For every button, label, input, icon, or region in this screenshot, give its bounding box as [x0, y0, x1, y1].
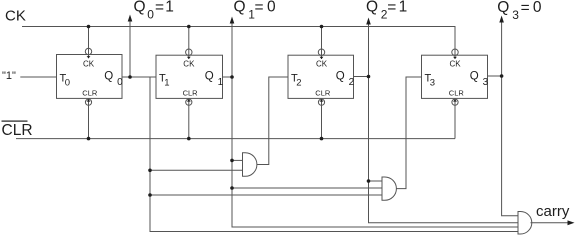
- svg-text:Q2: Q2: [336, 70, 355, 87]
- wire Q0 drop: [150, 77, 518, 232]
- junction Q0-G2: [148, 193, 152, 197]
- flip-flop U3 CK bubble: [318, 49, 324, 55]
- flip-flop U4 box: [422, 55, 488, 98]
- svg-text:"1": "1": [2, 70, 16, 82]
- flip-flop U2 box: [156, 55, 223, 98]
- arrowhead Q1: [230, 17, 235, 24]
- svg-text:CLR: CLR: [449, 88, 465, 97]
- junction Q3 output: [500, 74, 504, 78]
- svg-text:Q0: Q0: [104, 70, 123, 87]
- pin arrowhead CK x=321.5: [320, 57, 324, 59]
- svg-text:CK: CK: [183, 59, 195, 68]
- svg-text:Q3: Q3: [470, 70, 489, 87]
- wire Q0 arrow riser: [129, 20, 131, 77]
- wire Q3 arrow riser: [501, 21, 503, 76]
- wire Q3 stub: [488, 75, 502, 77]
- junction CLR-FF2: [187, 137, 191, 141]
- wire AND2 input from Q2: [369, 180, 383, 182]
- junction CLR-FF3: [320, 137, 324, 141]
- svg-text:T0: T0: [60, 72, 70, 88]
- wire CK drop FF1: [88, 27, 90, 59]
- svg-text:T1: T1: [159, 72, 169, 88]
- arrowhead carry: [568, 220, 575, 225]
- junction Q2 output: [367, 75, 371, 79]
- svg-text:Q1: Q1: [205, 70, 224, 87]
- AND gate G1: [243, 153, 257, 177]
- wire AND2 output to T3: [396, 77, 422, 189]
- flip-flop U4 CK bubble: [452, 49, 458, 55]
- wire Q1 arrow riser: [231, 22, 233, 77]
- svg-text:Q1=0: Q1=0: [234, 0, 277, 22]
- flip-flop U2 CK bubble: [186, 49, 192, 55]
- wire Q1 stub: [223, 76, 233, 78]
- svg-text:carry: carry: [536, 203, 570, 220]
- AND gate G3 carry: [518, 212, 532, 235]
- wire AND1 input from Q0: [150, 169, 243, 171]
- flip-flop U1 box: [57, 55, 123, 99]
- wire CLR bus: [16, 138, 455, 140]
- junction CK-FF2: [187, 25, 191, 29]
- svg-text:T3: T3: [425, 72, 435, 88]
- wire AND1 output to T2: [257, 77, 289, 165]
- flip-flop U1 CLR bubble: [85, 99, 91, 105]
- svg-text:CLR: CLR: [183, 88, 199, 97]
- svg-text:Q2=1: Q2=1: [366, 0, 407, 22]
- pin arrowhead CLR x=455: [453, 99, 457, 101]
- wire Q1 drop: [232, 77, 518, 227]
- flip-flop U3 box: [288, 55, 354, 98]
- pin arrowhead CLR x=321.5: [320, 99, 324, 101]
- pin arrowhead CK x=188.8: [187, 57, 191, 59]
- junction Q1-G1: [230, 159, 234, 163]
- wire Q0 to T1: [122, 76, 156, 78]
- svg-text:Q3=0: Q3=0: [497, 0, 542, 22]
- flip-flop U4 CLR bubble: [452, 99, 458, 105]
- wire Q2 stub: [354, 76, 369, 78]
- svg-text:T2: T2: [291, 72, 301, 88]
- flip-flop U3 CLR bubble: [318, 99, 324, 105]
- wire 1-input to T0: [20, 76, 56, 78]
- arrowhead Q0: [128, 15, 133, 22]
- overline of CLR: [2, 121, 28, 122]
- junction Q1 output: [230, 75, 234, 79]
- junction Q1-G2: [230, 186, 234, 190]
- wire CK bus: [22, 27, 455, 59]
- pin arrowhead CK x=88.5: [87, 56, 91, 58]
- wire CK drop FF2: [188, 27, 190, 59]
- flip-flop U2 CLR bubble: [186, 99, 192, 105]
- wire CLR drop FF4: [454, 99, 456, 139]
- pin arrowhead CK x=455: [453, 57, 457, 59]
- junction Q0 arrow: [128, 75, 132, 79]
- junction CLR-FF1: [87, 137, 91, 141]
- wire AND1 input from Q1: [232, 159, 243, 161]
- wire Q3 drop to carry gate: [502, 76, 518, 216]
- junction CK-FF3: [320, 25, 324, 29]
- wire Q2 arrow riser: [368, 23, 370, 77]
- junction Q0-G1: [148, 169, 152, 173]
- flip-flop U1 CK bubble: [85, 48, 91, 54]
- svg-text:CK: CK: [450, 59, 462, 68]
- wire CLR drop FF1: [88, 99, 90, 139]
- wire CK drop FF3: [321, 27, 323, 59]
- wire AND2 input from Q0: [150, 194, 382, 196]
- junction CK-FF1: [87, 25, 91, 29]
- svg-text:CLR: CLR: [82, 88, 98, 97]
- junction Q2-G2: [367, 179, 371, 183]
- wire CLR drop FF2: [188, 99, 190, 139]
- wire AND2 input from Q1: [232, 187, 382, 189]
- svg-text:CLR: CLR: [2, 122, 33, 139]
- wire Q2 drop: [369, 77, 519, 223]
- pin arrowhead CLR x=88.5: [87, 99, 91, 101]
- svg-text:CK: CK: [316, 59, 328, 68]
- wire CLR drop FF3: [321, 99, 323, 139]
- svg-text:CK: CK: [5, 8, 26, 25]
- svg-text:CLR: CLR: [315, 88, 331, 97]
- svg-text:CK: CK: [83, 59, 95, 68]
- pin arrowhead CLR x=188.8: [187, 99, 191, 101]
- AND gate G2: [382, 177, 396, 200]
- wire carry output: [531, 222, 570, 224]
- arrowhead Q3: [499, 16, 504, 23]
- arrowhead Q2: [366, 18, 371, 25]
- svg-text:Q0=1: Q0=1: [134, 0, 174, 22]
